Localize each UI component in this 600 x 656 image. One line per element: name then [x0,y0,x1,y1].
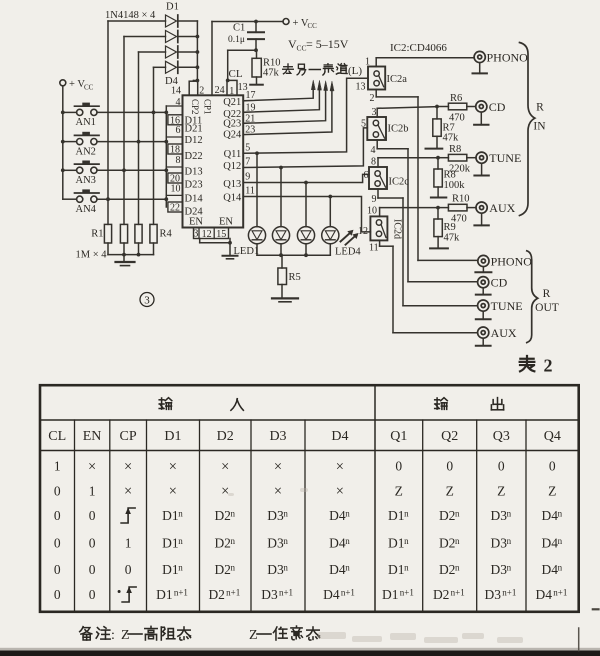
svg-text:1N4148 × 4: 1N4148 × 4 [105,10,156,21]
svg-text:D21: D21 [185,124,203,135]
svg-text:D1: D1 [162,508,179,523]
jack CD in [476,100,506,114]
ground under CD in [474,112,488,125]
label 13 [356,82,366,93]
svg-text:D4: D4 [542,508,559,523]
wire Q22 to L-channel arrow [243,81,321,113]
label LED1 [234,246,260,257]
svg-text:D3: D3 [491,562,508,577]
resistor R3 1M [135,224,142,243]
svg-text:21: 21 [245,114,255,125]
svg-text:Q13: Q13 [223,179,241,190]
svg-text:EN: EN [189,217,203,228]
diode D3 (1N4148) [139,46,198,58]
svg-text:D2: D2 [217,429,234,444]
svg-text:D1: D1 [388,508,405,523]
svg-text:D4: D4 [329,508,346,523]
jack TUNE in [476,151,521,165]
table column rules [75,385,527,612]
svg-text:n: n [558,536,563,546]
diode D4 (1N4148) [154,61,198,73]
jack PHONO out [478,254,532,268]
svg-text:n+1: n+1 [174,588,188,598]
wire Q13 to IC2c control (net 6) [243,174,369,184]
svg-text:R1: R1 [91,229,103,240]
svg-text:11: 11 [245,186,255,197]
svg-text:12: 12 [202,229,212,240]
LED3 [297,183,314,256]
svg-text:6: 6 [176,125,181,136]
LED4 light arrows [341,230,359,245]
capacitor C1 0.1u [228,22,264,51]
svg-text:Q14: Q14 [223,193,242,204]
analog switch IC2c [369,167,409,189]
analog switch IC2b [367,117,408,140]
svg-text:EN: EN [219,217,233,228]
svg-text:D2: D2 [439,508,456,523]
svg-text:AN2: AN2 [76,146,96,157]
diode D2 (1N4148) [124,31,197,43]
resistor R1 1M [104,224,111,243]
label 12 [358,226,368,237]
note: Z = high-impedance, X = don't care [80,626,320,643]
svg-text:n: n [178,509,183,519]
table data row 1 [54,459,556,475]
svg-text:4: 4 [371,145,376,156]
ground under R5 [272,298,298,301]
svg-text:IC2d: IC2d [392,219,403,239]
svg-text:1: 1 [125,536,132,551]
svg-text:5: 5 [361,119,366,130]
svg-text:6: 6 [364,170,369,181]
svg-text:IC2c: IC2c [389,177,410,188]
svg-text:Q1: Q1 [390,429,407,444]
svg-text:Q3: Q3 [493,429,510,444]
svg-text:Q12: Q12 [223,161,241,172]
svg-text:0: 0 [446,459,453,474]
wire Q21 to L-channel arrow [243,80,315,101]
pin 24 wire (Vcc) [212,22,225,97]
pin box 1 (CL) [226,79,237,97]
table data row 2 [54,483,557,499]
svg-text:D1: D1 [166,1,179,12]
pin box 18 [168,144,183,156]
svg-text:11: 11 [369,242,379,253]
svg-text:n: n [507,509,512,519]
pushbutton AN3 [63,161,99,187]
svg-text:13: 13 [356,82,366,93]
truth table outer border [40,385,579,612]
bracket R IN [520,43,547,216]
wire AN4 output [97,198,166,200]
svg-text:18: 18 [170,145,180,156]
svg-text:0: 0 [54,483,61,498]
svg-text:0: 0 [125,562,132,577]
svg-text:D4: D4 [329,536,346,551]
wire AN3 output [97,169,166,171]
svg-text:n+1: n+1 [451,588,465,598]
svg-text:D22: D22 [185,151,203,162]
svg-text:1: 1 [229,86,234,97]
svg-text:n: n [558,509,563,519]
LED2 [272,168,289,256]
svg-text:D12: D12 [185,135,203,146]
jack PHONO in [474,50,528,64]
svg-text:C1: C1 [233,23,245,34]
svg-text:D2: D2 [214,508,231,523]
svg-text:D2: D2 [433,587,450,602]
power terminal +Vcc (top) [283,18,317,30]
svg-text:n+1: n+1 [279,588,293,598]
labels D11..D24 [185,116,204,218]
LED1 [248,153,265,255]
svg-text:n: n [283,563,288,573]
IC2a pin 1 wire to PHONO in [365,56,474,67]
svg-text:×: × [88,459,96,475]
svg-text:19: 19 [246,103,256,114]
IC2b pin 4 wire to CD out [371,140,478,282]
wire column AN4 / D1 net [107,21,109,224]
svg-text:10: 10 [171,183,181,194]
resistor R2 1M [120,224,127,243]
svg-text:AN4: AN4 [76,204,97,215]
svg-text:D3: D3 [267,536,284,551]
svg-text:CL: CL [229,68,243,80]
svg-text:47k: 47k [263,68,280,79]
resistor R10 47k (pull-down) [252,50,281,78]
pushbutton AN1 [63,103,99,129]
svg-text:100k: 100k [444,180,466,191]
pushbutton AN4 [63,189,99,215]
svg-text:IC2a: IC2a [387,74,408,85]
svg-text:10: 10 [367,205,377,216]
svg-text:D3: D3 [267,562,284,577]
svg-text:R5: R5 [289,272,301,283]
svg-text:D14: D14 [185,193,204,204]
label D1 [166,1,179,12]
pin 8 stub [166,155,182,167]
resistor R10 470 (AUX) [438,194,476,225]
junction dots button rows to columns [106,111,168,202]
svg-text:2: 2 [199,85,204,96]
label 6 [364,170,369,181]
label Vcc = 5-15V [288,37,349,53]
svg-text:n: n [231,509,236,519]
svg-text:Q4: Q4 [544,429,561,444]
svg-text:D4: D4 [329,562,346,577]
pin 4 stub [166,97,182,108]
svg-text:n: n [455,536,460,546]
pushbutton AN2 [63,132,99,158]
label R4 [160,229,173,240]
jack AUX in [476,201,516,215]
wire column AN2 / D3 net [138,52,140,224]
wire Q11 to IC2a control (net 13) [243,78,368,155]
svg-text:47k: 47k [443,133,460,144]
svg-text:×: × [124,484,132,500]
diode D1 (1N4148) [108,15,197,27]
svg-text:D1: D1 [388,562,405,577]
svg-text:D1: D1 [162,562,179,577]
svg-text:+ V: + V [293,18,309,29]
svg-text:CC: CC [297,44,307,53]
svg-text:D4: D4 [331,429,348,444]
svg-text:Z: Z [395,483,403,498]
svg-text:IC2b: IC2b [388,124,409,135]
pin box 3/12/15 (bottom) [193,228,228,240]
svg-text:9: 9 [372,194,377,205]
svg-text:×: × [274,459,282,475]
label D4 [165,76,179,87]
svg-text:CP: CP [120,429,137,444]
svg-text:0: 0 [54,508,61,523]
svg-text:AUX: AUX [489,201,515,215]
LED4 [322,197,339,256]
svg-text:IN: IN [533,121,546,133]
svg-text:3: 3 [144,295,150,307]
wire CL node [228,48,258,80]
table header rules [40,420,579,451]
table data row 3 [54,508,563,524]
label 1N4148 x 4 [105,10,156,21]
svg-text:n: n [455,509,460,519]
ground under R9 [430,247,448,249]
resistor R5 [278,255,301,297]
svg-text:×: × [274,484,282,500]
label R1 [91,229,103,240]
svg-text:8: 8 [371,156,376,167]
label pin 13 (top) [238,82,248,93]
svg-text:D4: D4 [536,587,553,602]
table data row 6 [54,587,568,603]
svg-text:×: × [124,459,132,475]
wire Q14 to IC2d control (net 12) [243,195,370,232]
ground under AUX out [476,338,491,345]
svg-text:4: 4 [176,97,181,108]
svg-text:14: 14 [171,85,181,96]
wire LED cathode bus [257,253,330,257]
ground under R1-R4 [116,262,135,266]
svg-text:AN3: AN3 [76,175,96,186]
label LED4 [335,247,361,258]
svg-text:47k: 47k [444,232,461,243]
svg-text:R8: R8 [449,144,461,155]
pin 6 stub [166,125,182,137]
svg-text:n: n [345,536,350,546]
svg-text:n: n [231,563,236,573]
svg-text:×: × [221,484,229,500]
wire left Vcc rail down to buttons [62,86,64,199]
svg-text:0: 0 [54,536,61,551]
svg-text:5: 5 [245,142,250,153]
svg-text:0: 0 [395,459,402,474]
svg-text:IC2:CD4066: IC2:CD4066 [390,42,447,54]
svg-text:7: 7 [245,156,250,167]
svg-text:3: 3 [193,229,198,240]
svg-text:R: R [536,102,544,114]
svg-text:CP2: CP2 [190,99,200,115]
labels CP1 CP2 (rotated) [190,99,213,115]
pin numbers 17 19 21 23 [245,90,255,136]
svg-text:CC: CC [308,22,318,30]
svg-text:n: n [231,536,236,546]
ground under R7 [426,148,443,150]
resistor R4 1M [150,224,157,243]
svg-text:R6: R6 [450,93,462,104]
label to other channel (L) [283,64,363,77]
svg-text:n: n [404,536,409,546]
svg-text:(L): (L) [348,65,362,77]
svg-text:D23: D23 [185,179,203,190]
svg-text:D3: D3 [269,429,286,444]
svg-text:D2: D2 [439,536,456,551]
svg-text:R9: R9 [444,222,456,233]
header column labels [48,429,561,444]
svg-text:CP1: CP1 [203,99,213,115]
svg-text:n: n [345,563,350,573]
junction dots on Vcc rail [61,111,65,173]
IC2b pin 3 wire to CD node [372,107,438,118]
svg-text:CL: CL [48,429,66,444]
svg-text:PHONO: PHONO [491,254,533,268]
scan artifact: faint bleed-through smudges [228,488,523,643]
svg-text:0: 0 [549,459,556,474]
wire common vertical into pin boxes [165,106,167,207]
svg-text:n: n [507,536,512,546]
svg-text:Q23: Q23 [223,119,241,130]
svg-text:AUX: AUX [491,326,517,340]
svg-text:AN1: AN1 [76,117,96,128]
svg-text:0: 0 [89,536,96,551]
svg-text:2: 2 [544,356,553,376]
svg-text:24: 24 [215,85,225,96]
svg-text:Z: Z [249,628,258,643]
node CD / resistor R7 47k [433,105,459,148]
svg-text:D3: D3 [485,587,502,602]
svg-text:D3: D3 [491,536,508,551]
svg-text:R8: R8 [444,170,456,181]
ground under PHONO out [475,267,491,273]
svg-text:×: × [169,459,177,475]
wire diode cathode bus to CP pin [194,21,200,82]
svg-text:17: 17 [246,90,256,101]
svg-text:+ V: + V [69,79,85,90]
svg-text:n: n [558,563,563,573]
svg-text:D4: D4 [542,562,559,577]
svg-text:0.1μ: 0.1μ [228,35,245,45]
svg-text:CC: CC [84,84,94,92]
IC2c pin 9 wire to TUNE out [372,189,478,306]
wire Q23 to L-channel arrow [243,81,327,123]
wire Vcc rail [212,20,283,24]
svg-text:n: n [455,563,460,573]
svg-text:D3: D3 [261,587,278,602]
resistor R6 470 [437,93,476,123]
svg-text:n+1: n+1 [226,588,240,598]
svg-text:n: n [404,509,409,519]
svg-text:n: n [507,563,512,573]
ground under PHONO in [473,63,487,74]
svg-text:D4: D4 [323,587,340,602]
svg-text:R: R [543,288,551,300]
svg-text:n: n [178,563,183,573]
label 5 [361,119,366,130]
analog switch IC2d [370,216,402,240]
bracket R OUT [527,251,559,343]
scan artifact: right margin marks [579,609,599,650]
jack CD out [478,276,508,290]
svg-text:Q11: Q11 [224,149,242,160]
jack AUX out [478,326,517,340]
svg-text:0: 0 [54,587,61,602]
svg-text:OUT: OUT [535,302,559,314]
ground under AUX in [474,213,488,225]
svg-text:n: n [404,563,409,573]
node AUX / resistor R9 47k [434,206,460,248]
svg-text:n+1: n+1 [502,588,516,598]
svg-text:D2: D2 [214,536,231,551]
svg-text:D2: D2 [214,562,231,577]
node TUNE / resistor R8 100k [434,156,465,197]
wire column AN3 / D2 net [123,37,125,225]
svg-text:PHONO: PHONO [487,50,529,64]
header input / output [159,398,503,411]
wire R1-R4 commons to ground [108,243,154,261]
svg-text:×: × [221,459,229,475]
labels Q21..Q14 [223,97,242,204]
svg-text:LED1: LED1 [234,246,260,257]
svg-text:0: 0 [54,562,61,577]
svg-text:9: 9 [245,172,250,183]
jack TUNE out [478,299,523,313]
table data row 4 [54,536,563,551]
pin 10 stub [166,183,182,195]
pin box 14/2 (CP) [171,81,204,96]
svg-text:D2: D2 [439,562,456,577]
analog switch IC2a [368,67,407,90]
resistor R8 220k [438,144,476,175]
svg-text:D4: D4 [542,536,559,551]
svg-text:Z: Z [497,483,505,498]
svg-text:0: 0 [89,508,96,523]
label CL [229,68,243,80]
labels EN EN [189,217,233,228]
IC2d pin 10 wire to AUX node [367,205,438,216]
IC2a pin 2 wire to PHONO out [370,90,478,261]
svg-text:n: n [345,509,350,519]
svg-text:D1: D1 [162,536,179,551]
svg-text:1M × 4: 1M × 4 [76,250,108,261]
table 2 caption [520,356,553,376]
svg-text:Z: Z [446,483,454,498]
ground under CD out [476,288,491,295]
svg-text:D3: D3 [491,508,508,523]
svg-text:8: 8 [176,155,181,166]
IC2d pin 11 wire to AUX out [369,240,477,332]
figure number 3 [140,293,154,307]
label 1M x 4 [76,250,108,261]
svg-text:D1: D1 [388,536,405,551]
svg-text:n+1: n+1 [553,588,567,598]
svg-text:×: × [336,459,344,475]
svg-text:EN: EN [83,429,102,444]
svg-text:CD: CD [489,100,506,114]
svg-text:1: 1 [365,56,370,67]
ground under TUNE in [474,163,488,175]
pin numbers 5 7 9 11 [245,142,255,196]
svg-text:CD: CD [491,276,508,290]
svg-text:n+1: n+1 [400,588,414,598]
